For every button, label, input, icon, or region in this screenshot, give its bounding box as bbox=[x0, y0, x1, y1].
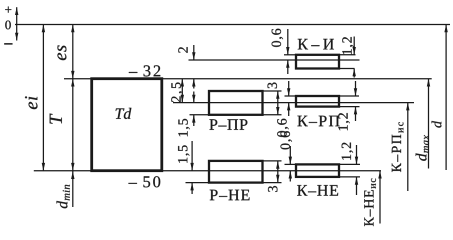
es arrowhead bottom bbox=[71, 71, 74, 79]
K-RP top extension right bbox=[339, 95, 359, 97]
label d_max bbox=[416, 135, 429, 161]
dim 0.6 K-RP arrowhead lower bbox=[287, 103, 290, 111]
label K-I bbox=[298, 39, 334, 49]
dim 2 lower arrow stem bbox=[193, 79, 195, 89]
K-I top extension right bbox=[339, 54, 356, 56]
dim 1.2 K-NE upper stem bbox=[356, 145, 358, 164]
label dim 0.6 K-RP bbox=[277, 119, 288, 137]
K-NE_is arrowhead bbox=[378, 171, 381, 179]
R-NE gauge box bbox=[209, 161, 263, 183]
label K-RP bbox=[297, 116, 339, 126]
label dim 1.2 K-NE bbox=[342, 143, 353, 160]
K-I bottom extension right bbox=[339, 68, 355, 70]
label dim 3 PR bbox=[268, 83, 277, 89]
dim 0.6 K-I lower stem bbox=[287, 60, 289, 74]
dim 0.6 K-RP arrowhead upper bbox=[287, 88, 290, 96]
d_min dimension line bbox=[72, 171, 74, 207]
dim 1.5 PR lower stem bbox=[193, 115, 195, 126]
K-NE_is dimension line bbox=[379, 171, 381, 224]
dim 3 PR arrowhead top bbox=[276, 91, 279, 99]
label R-NE bbox=[210, 190, 250, 200]
dim 3 PR arrowhead bottom bbox=[276, 107, 279, 115]
T arrowhead top bbox=[71, 79, 74, 87]
K-NE top extension right bbox=[339, 163, 360, 165]
dim 1.2 K-I arrowhead upper bbox=[353, 47, 356, 55]
dim 3 NE arrowhead top bbox=[276, 161, 279, 169]
dim 3 NE arrowhead bottom bbox=[276, 175, 279, 183]
dim 1.2 K-I arrowhead lower bbox=[353, 69, 356, 77]
dim 0.6 K-I arrowhead upper bbox=[286, 47, 289, 55]
d arrowhead bbox=[444, 25, 447, 33]
K-RP top extension left bbox=[285, 95, 297, 97]
wear limit line (K-I midline) bbox=[189, 59, 360, 61]
dim 1.2 K-RP upper stem bbox=[355, 81, 357, 96]
K-I gauge box bbox=[296, 55, 339, 69]
R-PR gauge box bbox=[209, 91, 263, 115]
label ei bbox=[25, 96, 37, 109]
label -50 bbox=[128, 176, 160, 187]
R-NE bottom extension right bbox=[263, 182, 282, 184]
R-PR bottom extension right bbox=[263, 114, 282, 116]
ei dimension line bbox=[42, 25, 44, 171]
label dim 1.5 PR bbox=[178, 119, 189, 136]
K-I top extension left bbox=[284, 54, 296, 56]
label dim 2.5 bbox=[171, 82, 182, 102]
dim 0.6 K-RP upper stem bbox=[288, 81, 290, 96]
dim 1.5 PR arrowhead upper bbox=[192, 95, 195, 103]
ei arrowhead top bbox=[42, 25, 45, 33]
dim 2 arrowhead lower bbox=[192, 79, 195, 87]
label dim 0.6 K-I bbox=[272, 29, 283, 47]
es line (-32 level) bbox=[64, 78, 432, 80]
label dim 3 NE bbox=[268, 186, 277, 192]
label d_min bbox=[57, 185, 70, 208]
dim 2.5 arrowhead top bbox=[181, 79, 184, 87]
dim 0.6 K-NE lower stem bbox=[289, 171, 291, 182]
R-PR bottom extension left bbox=[190, 114, 210, 116]
dim 1.2 K-NE lower stem bbox=[356, 177, 358, 195]
dim 1.2 K-RP lower stem bbox=[355, 107, 357, 121]
dim 0.6 K-NE arrowhead lower bbox=[289, 171, 292, 179]
dim 1.2 K-I lower stem bbox=[353, 69, 355, 78]
dim 1.2 K-RP arrowhead lower bbox=[354, 107, 357, 115]
dim 2.5 arrowhead bottom bbox=[181, 95, 184, 103]
dim 1.2 K-NE arrowhead lower bbox=[355, 177, 358, 185]
dim 0.6 K-I upper stem bbox=[287, 29, 289, 55]
dim 1.5 NE upper stem bbox=[191, 141, 193, 171]
R-NE top extension right bbox=[263, 160, 282, 162]
K-NE top extension left bbox=[285, 163, 297, 165]
es dimension line bbox=[72, 25, 74, 79]
dim 1.5 NE arrowhead upper bbox=[190, 163, 193, 171]
PR midline (Z level) bbox=[173, 102, 414, 104]
dim 2 arrowhead upper bbox=[192, 52, 195, 60]
label dim 1.5 NE bbox=[178, 145, 189, 162]
axis arrowhead up bbox=[15, 7, 18, 15]
label dim 0.6 K-NE bbox=[280, 131, 291, 149]
T dimension line bbox=[72, 79, 74, 171]
dim 2.5 stem bbox=[181, 79, 183, 103]
dim 1.5 PR arrowhead lower bbox=[192, 115, 195, 123]
dim 0.6 K-NE arrowhead upper bbox=[289, 157, 292, 165]
label -32 bbox=[129, 65, 160, 76]
dim 3 NE stem bbox=[277, 161, 279, 183]
dim 1.5 NE lower stem bbox=[191, 183, 193, 194]
d_max dimension line bbox=[428, 79, 430, 169]
T arrowhead bottom bbox=[71, 163, 74, 171]
dim 0.6 K-RP lower stem bbox=[288, 103, 290, 116]
label K-RP_is bbox=[392, 122, 404, 172]
R-NE bottom extension left bbox=[186, 182, 210, 184]
K-RP gauge box bbox=[296, 96, 339, 107]
Td tolerance box bbox=[92, 79, 162, 171]
dim 0.6 K-NE upper stem bbox=[289, 146, 291, 164]
dim 3 PR stem bbox=[277, 91, 279, 115]
dim 1.5 PR upper stem bbox=[193, 92, 195, 103]
label Td bbox=[116, 108, 132, 119]
d_max arrowhead bbox=[427, 79, 430, 87]
dim 1.5 NE arrowhead lower bbox=[190, 183, 193, 191]
label K-NE bbox=[297, 185, 338, 195]
K-RP bottom extension right bbox=[339, 106, 360, 108]
R-PR top extension right bbox=[263, 90, 282, 92]
plus label bbox=[5, 7, 11, 13]
d_min arrowhead bbox=[71, 171, 74, 179]
ei line (-50 level) bbox=[34, 170, 381, 172]
label dim 1.2 K-I bbox=[342, 37, 353, 54]
ei arrowhead bottom bbox=[42, 163, 45, 171]
axis double arrow stem bbox=[16, 7, 18, 40]
label R-PR bbox=[209, 119, 247, 129]
dim 2 upper arrow stem bbox=[193, 45, 195, 60]
label es bbox=[57, 45, 66, 60]
label d bbox=[432, 121, 442, 128]
K-NE gauge box bbox=[296, 164, 339, 177]
minus label bbox=[4, 42, 12, 45]
zero line bbox=[15, 24, 450, 26]
K-RP_is dimension line bbox=[407, 103, 409, 191]
label K-NE_is bbox=[364, 179, 376, 227]
dim 1.2 K-NE arrowhead upper bbox=[355, 157, 358, 165]
dim 1.2 K-I upper stem bbox=[353, 37, 355, 55]
label dim 2 bbox=[178, 47, 187, 53]
label dim 1.2 K-RP bbox=[338, 113, 349, 130]
axis arrowhead down bbox=[15, 33, 18, 41]
K-RP_is arrowhead bbox=[406, 103, 409, 111]
dim 1.2 K-RP arrowhead upper bbox=[354, 88, 357, 96]
zero label bbox=[5, 21, 11, 30]
K-NE bottom extension right bbox=[339, 176, 360, 178]
dim 0.6 K-I arrowhead lower bbox=[286, 60, 289, 68]
label T bbox=[50, 114, 62, 124]
d dimension line bbox=[445, 25, 447, 171]
es arrowhead top bbox=[71, 25, 74, 33]
